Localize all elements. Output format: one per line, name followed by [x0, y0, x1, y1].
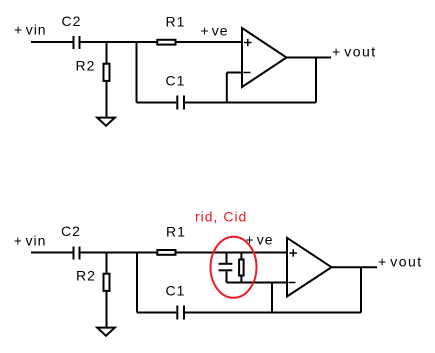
svg-text:R1: R1 [166, 223, 186, 239]
svg-text:C1: C1 [166, 283, 186, 299]
svg-text:+ve: +ve [201, 22, 229, 38]
svg-text:C2: C2 [61, 223, 81, 239]
svg-text:+ve: +ve [246, 232, 274, 248]
svg-text:+vout: +vout [378, 254, 423, 270]
svg-text:R2: R2 [76, 268, 96, 284]
svg-text:R2: R2 [76, 58, 96, 74]
svg-text:rid, Cid: rid, Cid [195, 209, 247, 225]
svg-text:C2: C2 [62, 13, 82, 29]
svg-text:+vin: +vin [14, 22, 47, 38]
svg-text:C1: C1 [166, 73, 186, 89]
svg-text:+vin: +vin [14, 233, 47, 249]
svg-text:R1: R1 [166, 14, 186, 30]
svg-text:+vout: +vout [332, 44, 377, 60]
